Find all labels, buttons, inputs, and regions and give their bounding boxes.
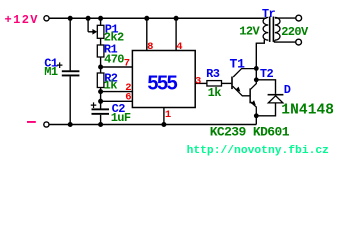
transistor Q1 base bar: [231, 77, 233, 90]
node pin2: [98, 89, 103, 94]
transistor Q1 emitter arrow: [235, 87, 240, 92]
svg-text:R3: R3: [206, 67, 220, 81]
wire secondary top: [275, 17, 296, 19]
svg-text:T2: T2: [260, 67, 274, 81]
node R1-R2: [98, 65, 103, 70]
wire pin4: [175, 18, 177, 50]
wire P1-R1: [100, 38, 102, 45]
wire C2 bottom: [100, 115, 102, 125]
transistor Q2 collector: [251, 80, 257, 89]
svg-text:6: 6: [125, 92, 131, 104]
wire R3-T1: [222, 82, 232, 84]
capacitor C2: [92, 108, 110, 114]
svg-text:1k: 1k: [104, 78, 118, 92]
wire rail elbow up: [255, 116, 257, 125]
transistor Q1 collector: [233, 69, 256, 77]
diode D triangle: [268, 96, 283, 103]
wire diode bottom: [256, 103, 275, 116]
label minus: [27, 121, 36, 123]
svg-text:http://novotny.fbi.cz: http://novotny.fbi.cz: [187, 145, 329, 157]
resistor R2: [97, 73, 104, 88]
wire pin7: [101, 66, 133, 68]
wire pin3: [195, 82, 207, 84]
wire C1 top: [69, 18, 71, 70]
wire R1-R2: [100, 57, 102, 73]
node C2 rail: [98, 122, 103, 127]
transformer primary winding: [263, 17, 268, 40]
wire primary elbow: [256, 40, 264, 44]
wire wiper vertical: [87, 18, 89, 32]
junction top P1: [98, 16, 103, 21]
wire P1 top: [100, 18, 102, 25]
capacitor C1: [62, 70, 80, 76]
node pin1 rail: [161, 122, 166, 127]
wire wiper horizontal: [88, 31, 93, 33]
svg-text:3: 3: [195, 75, 201, 87]
svg-text:M1: M1: [44, 65, 58, 79]
wire to diode top: [256, 80, 275, 94]
svg-text:1k: 1k: [208, 86, 222, 100]
svg-text:4: 4: [176, 41, 182, 53]
transformer secondary winding: [275, 17, 280, 40]
wire pin8: [146, 18, 148, 50]
svg-text:555: 555: [147, 73, 177, 95]
wiper arrowhead P1: [92, 29, 97, 35]
svg-text:1uF: 1uF: [111, 111, 131, 125]
terminal minus: [44, 122, 49, 127]
node pin6: [98, 99, 103, 104]
svg-text:220V: 220V: [281, 25, 309, 39]
svg-text:1N4148: 1N4148: [281, 103, 334, 119]
svg-text:8: 8: [147, 41, 153, 53]
wire C1 bottom: [69, 76, 71, 124]
svg-text:7: 7: [124, 58, 130, 70]
wire bottom rail: [49, 124, 256, 126]
node collector T1: [254, 66, 259, 71]
transistor Q2 base bar: [249, 88, 251, 103]
wire pin6: [101, 100, 133, 102]
svg-text:12V: 12V: [239, 24, 260, 38]
junction top pin8: [144, 16, 149, 21]
resistor R3: [207, 81, 222, 86]
junction top C1: [68, 16, 73, 21]
potentiometer P1: [97, 25, 104, 38]
junction top wiper: [86, 16, 91, 21]
wire R2-C2: [100, 88, 102, 109]
transistor Q1 emitter: [233, 86, 250, 96]
transistor Q2 emitter arrow: [251, 100, 256, 105]
node collector T2: [254, 77, 259, 82]
op-amp U1 555 box: [132, 51, 195, 108]
terminal +12V: [44, 16, 49, 21]
svg-text:+: +: [90, 101, 97, 113]
wire pin1: [163, 108, 165, 125]
transformer core: [269, 17, 274, 42]
resistor R1: [97, 45, 104, 57]
svg-text:470: 470: [104, 52, 124, 66]
svg-text:T1: T1: [230, 57, 246, 72]
wire top rail: [49, 17, 266, 19]
svg-text:KC239 KD601: KC239 KD601: [210, 124, 290, 139]
diode D cathode bar: [268, 94, 284, 96]
wire pin2: [101, 91, 133, 93]
wire secondary bottom: [275, 40, 296, 42]
wire collector vertical: [255, 43, 257, 80]
terminal secondary top: [296, 15, 302, 21]
terminal secondary bottom: [296, 39, 302, 45]
svg-text:D: D: [284, 83, 291, 97]
node C1 rail: [68, 122, 73, 127]
svg-text:+12V: +12V: [5, 13, 39, 27]
junction top pin4: [174, 16, 179, 21]
svg-text:1: 1: [165, 109, 171, 121]
transistor Q2 emitter: [251, 102, 257, 116]
node emitter-diode: [254, 113, 259, 118]
